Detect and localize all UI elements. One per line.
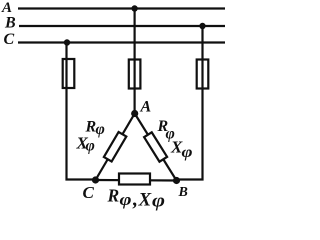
svg-text:A: A (140, 99, 152, 116)
svg-text:B: B (178, 185, 188, 200)
node C (delta bottom-left) (92, 176, 99, 183)
junction dot on bus A (131, 5, 137, 11)
wire tap from bus C down then right to node C (67, 43, 96, 180)
svg-text:C: C (4, 31, 15, 48)
impedance Z3 (branch C-B, Rφ Xφ) (119, 174, 150, 185)
impedance Z2 (branch A-B, Rφ Xφ) (144, 132, 167, 161)
wire delta branch A-C (96, 114, 135, 181)
wire tap from bus A down to node A (134, 9, 136, 113)
fuse FU3 (phase B tap) (197, 60, 209, 89)
node A (delta top) (131, 110, 138, 117)
svg-text:φ: φ (152, 192, 165, 212)
node B (delta bottom-right) (173, 177, 180, 184)
wire bus C (18, 41, 225, 43)
fuse FU2 (phase A tap) (129, 60, 141, 89)
junction dot on bus B (199, 23, 205, 29)
svg-text:X: X (138, 190, 153, 211)
wire bus A (18, 7, 225, 9)
svg-text:φ: φ (182, 144, 193, 161)
svg-text:φ: φ (86, 138, 95, 155)
svg-text:φ: φ (96, 121, 105, 138)
svg-text:,: , (132, 189, 138, 211)
junction dot on bus C (64, 39, 70, 45)
wire bus B (19, 25, 225, 27)
fuse FU1 (phase C tap) (63, 59, 75, 88)
wire tap from bus B down then left to node B (177, 26, 203, 180)
svg-text:C: C (83, 183, 95, 202)
svg-text:φ: φ (120, 190, 132, 209)
svg-text:R: R (107, 186, 120, 206)
wire delta branch A-B (135, 114, 177, 181)
svg-text:B: B (4, 15, 16, 32)
impedance Z1 (branch A-C, Rφ Xφ) (104, 132, 126, 162)
wire delta branch C-B (96, 179, 177, 182)
